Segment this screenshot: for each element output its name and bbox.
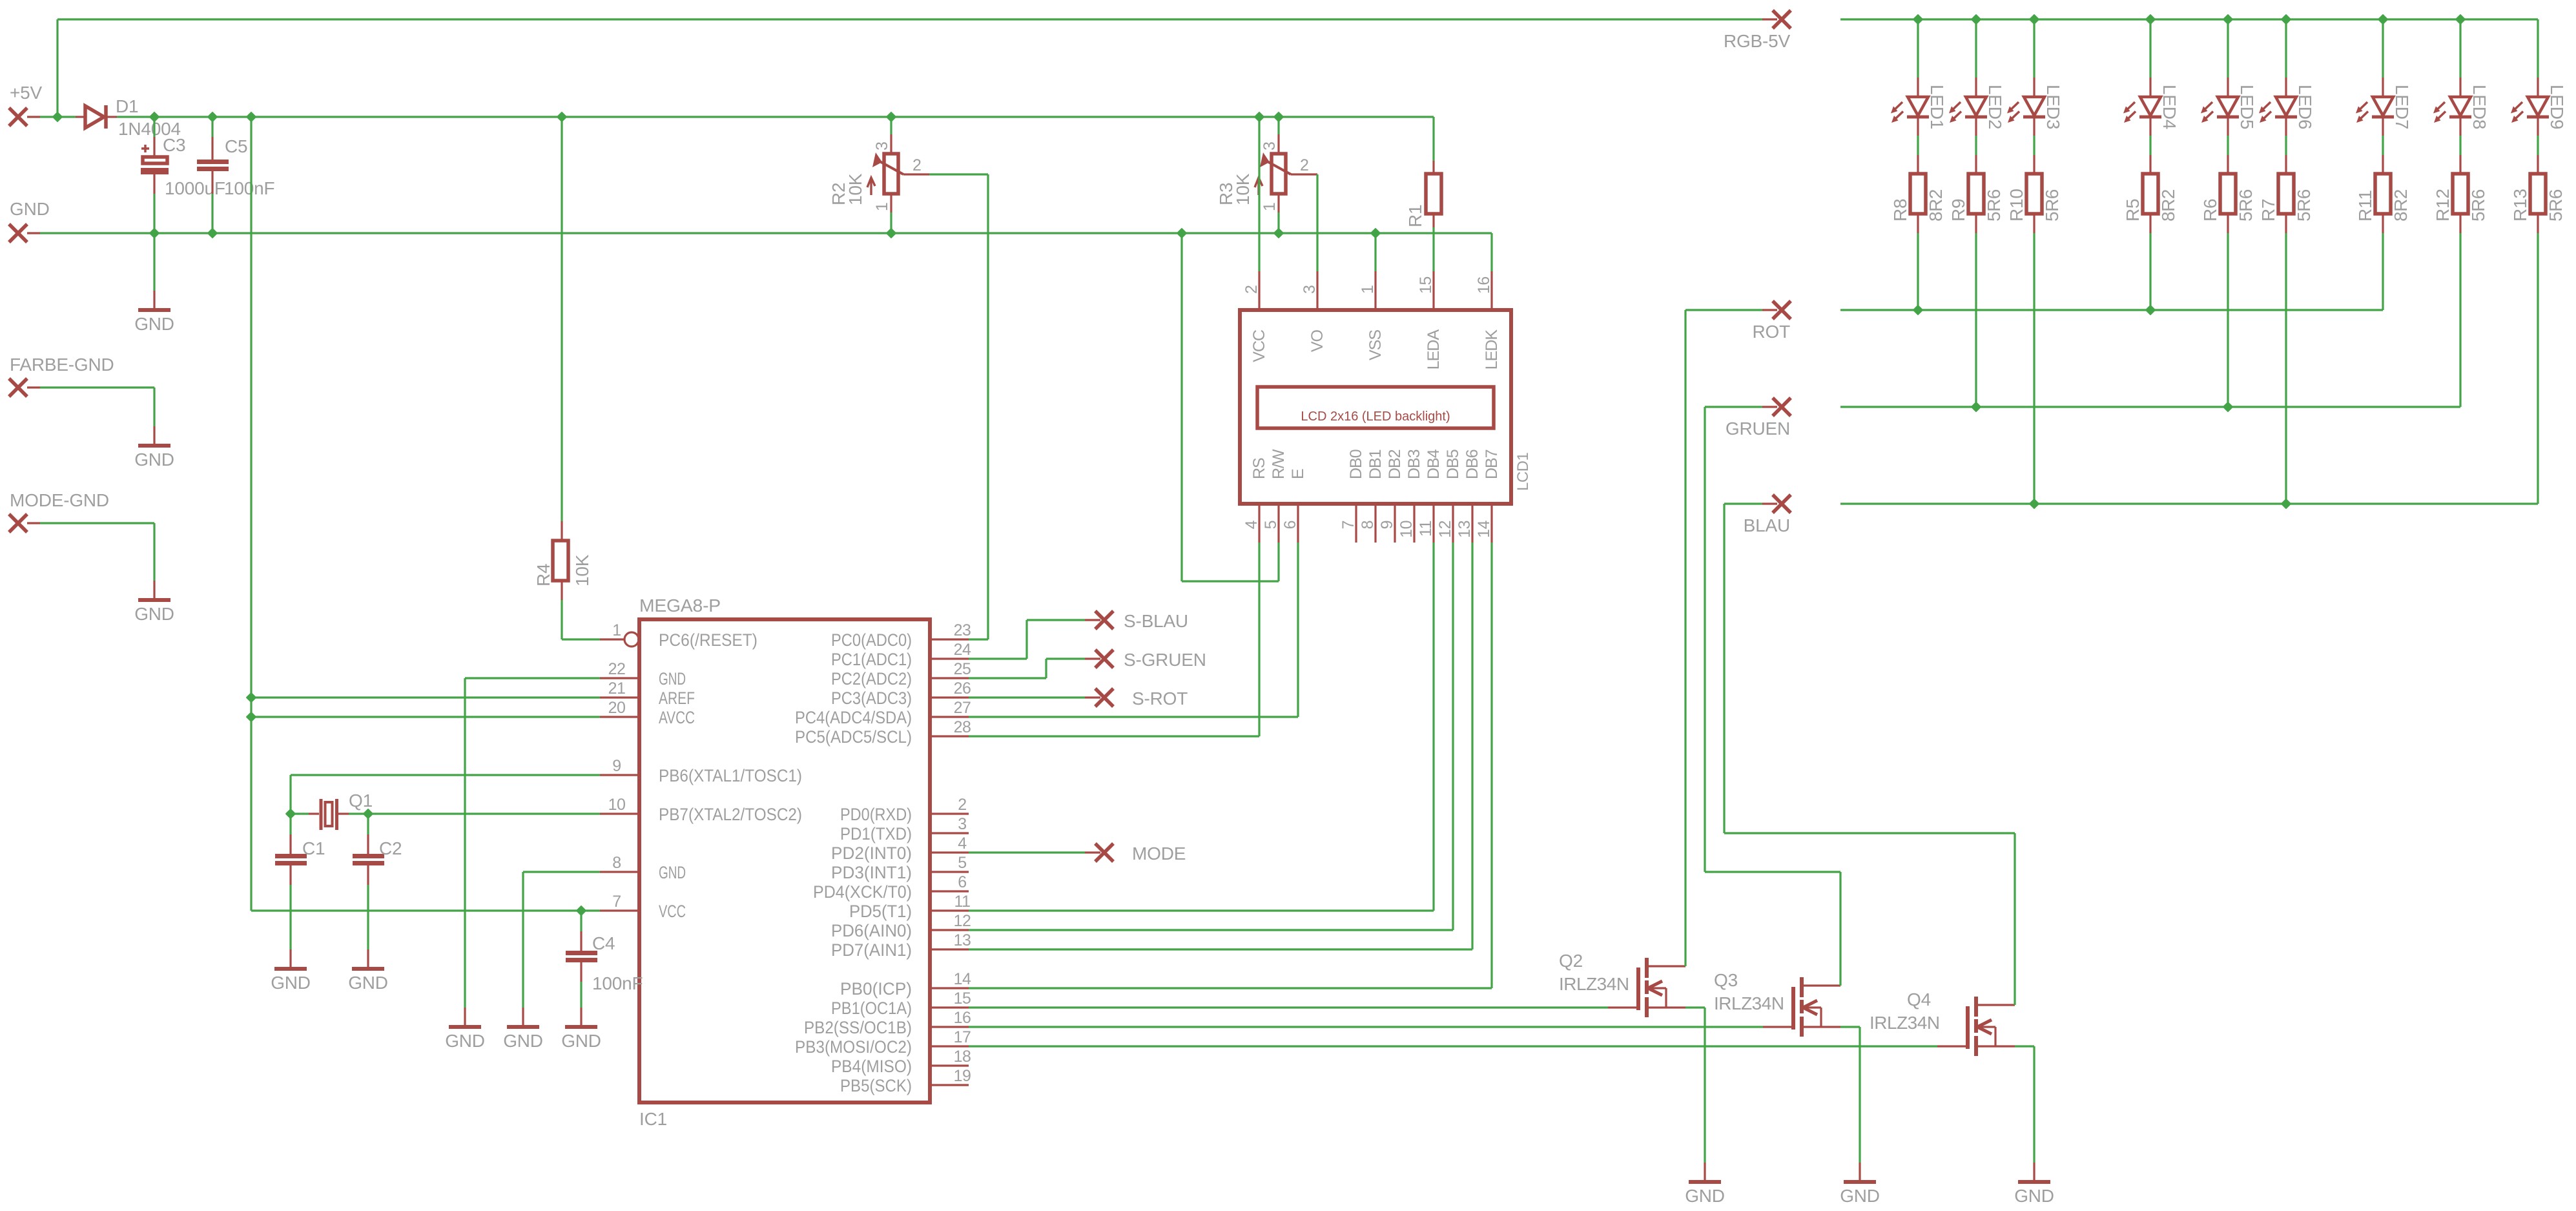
junction RGB-5V LED8 [2456,15,2464,23]
net flag RGB-5V [1724,10,1791,51]
wire PB1 to Q2 gate [969,1006,1608,1008]
IC pin number 26 [954,679,971,698]
IC pin name PD4(XCK/T0) [813,882,912,902]
svg-text:DB6: DB6 [1463,450,1481,479]
svg-text:LED2: LED2 [1985,85,2005,129]
LCD pin 5 R/W stub [1277,504,1279,543]
LCD pin 13 DB6 stub [1471,504,1473,543]
svg-text:AVCC: AVCC [659,708,695,727]
svg-text:PB1(OC1A): PB1(OC1A) [831,999,912,1018]
svg-text:C3: C3 [163,135,185,155]
wire Q3 source to ground [1840,1027,1860,1163]
svg-text:R7: R7 [2258,199,2278,222]
wire crystal left stub [291,813,319,814]
LCD pin 15 LEDA stub [1432,271,1434,310]
svg-text:9: 9 [1378,521,1396,529]
IC pin name PB0(ICP) [840,979,912,999]
label R3 [1216,183,1236,205]
svg-text:PB2(SS/OC1B): PB2(SS/OC1B) [804,1018,912,1037]
IC pin name PC3(ADC3) [831,688,912,708]
label R10 [2006,189,2026,222]
svg-text:GND: GND [10,199,50,219]
LCD pin number 4 [1242,520,1261,529]
svg-text:DB5: DB5 [1444,450,1462,479]
svg-text:GND: GND [503,1031,543,1051]
IC pin 14 PB0(ICP) stub [930,987,969,989]
IC pin name PC6(/RESET) [659,630,757,650]
svg-text:VCC: VCC [659,902,686,921]
wire S-GRUEN stub [1085,657,1100,659]
svg-text:PD2(INT0): PD2(INT0) [831,844,912,863]
wire IC pin22 GND [465,678,600,1008]
svg-text:BLAU: BLAU [1744,515,1790,535]
svg-text:5R6: 5R6 [2236,189,2256,222]
svg-text:7: 7 [612,893,621,911]
svg-text:R/W: R/W [1270,449,1288,479]
LCD pin name VO [1308,329,1326,352]
label 100nF (C5) [224,178,274,198]
crystal Q1 [321,799,337,830]
svg-text:LED9: LED9 [2547,85,2567,129]
IC pin name PD0(RXD) [840,805,912,824]
wire R3 upper [1277,117,1279,154]
wire R10 lower [2033,214,2035,504]
wire Q2 source to ground [1685,1008,1705,1163]
transistor Q4 IRLZ34N [1937,997,2015,1056]
wire MODE from PD2 [969,851,1085,853]
wire C5 upper [211,117,213,160]
wire LED7 cathode [2382,117,2384,174]
IC pin name PB5(SCK) [840,1076,912,1095]
ground GND (Q3) [1840,1163,1880,1206]
wire LED6 anode [2285,19,2287,97]
svg-text:LCD 2x16 (LED backlight): LCD 2x16 (LED backlight) [1301,409,1450,424]
IC pin 17 PB3(MOSI/OC2) stub [930,1045,969,1047]
resistor R11 [2375,174,2391,214]
IC pin number 24 [954,641,971,659]
LCD pin name R/W [1270,449,1288,479]
wire R11 lower [2382,214,2384,310]
svg-text:11: 11 [954,893,971,911]
junction C4 tap [577,906,585,915]
LCD pin name RS [1250,458,1268,479]
label 1N4004 [118,119,181,139]
label LED2 [1985,85,2005,129]
LED LED7 [2356,97,2394,123]
junction LCD VSS tap [1371,229,1379,237]
IC pin number 7 [612,893,621,911]
svg-text:IC1: IC1 [639,1109,667,1129]
IC pin 13 PD7(AIN1) stub [930,948,969,950]
wire LED4 cathode [2149,117,2151,174]
junction C3 tap [150,112,158,121]
svg-text:15: 15 [1417,276,1435,294]
wire +5V input [40,116,76,118]
svg-text:9: 9 [612,757,621,775]
svg-text:8R2: 8R2 [2158,189,2178,222]
wire R12 lower [2459,214,2461,407]
IC pin number 2 [958,796,966,814]
ground GND (FARBE) [134,426,174,470]
junction RGB-5V LED2 [1972,15,1980,23]
net flag ROT [1752,301,1791,342]
wire MODE-GND stub [27,522,40,524]
svg-text:S-GRUEN: S-GRUEN [1124,650,1206,670]
wire FARBE-GND [40,388,154,426]
LCD pin number 11 [1417,521,1435,537]
wire C2 lower [367,865,369,949]
svg-text:PB4(MISO): PB4(MISO) [831,1057,912,1076]
label 1000uF [165,178,225,198]
svg-text:10K: 10K [1233,173,1253,205]
wire S-BLAU stub [1085,619,1100,621]
junction R2 bottom on GND rail [887,229,895,237]
label LCD1 [1514,452,1532,491]
IC pin name PD3(INT1) [831,863,912,882]
LCD pin 8 DB1 stub [1374,504,1376,543]
wire RGB-5V flag stub [1762,18,1777,20]
svg-text:ROT: ROT [1752,322,1790,342]
svg-text:PC3(ADC3): PC3(ADC3) [831,688,912,708]
svg-text:R9: R9 [1948,199,1968,222]
IC pin name PB6(XTAL1/TOSC1) [659,766,802,785]
junction C5 tap [208,112,216,121]
label C3 [163,135,185,155]
label R4 [533,564,553,586]
LCD pin name DB7 [1483,450,1501,479]
svg-text:PD0(RXD): PD0(RXD) [840,805,912,824]
IC pin 7 VCC stub [600,909,639,911]
IC pin number 10 [608,796,626,814]
wire R2 upper [890,117,892,154]
IC pin name PB3(MOSI/OC2) [795,1037,912,1057]
pin number 1 (R3) [1261,203,1279,211]
junction AVCC riser tap [247,112,255,121]
IC pin 18 PB4(MISO) stub [930,1064,969,1066]
net flag GRUEN [1726,398,1791,439]
svg-text:12: 12 [1436,521,1454,538]
svg-text:8R2: 8R2 [2391,189,2411,222]
svg-text:15: 15 [954,989,971,1008]
svg-text:19: 19 [954,1067,971,1085]
svg-text:LED5: LED5 [2237,85,2257,129]
LCD pin 7 DB0 stub [1355,504,1357,543]
junction BLAU LED3 [2030,499,2038,508]
IC pin 19 PB5(SCK) stub [930,1084,969,1086]
svg-text:GND: GND [445,1031,485,1051]
LCD inner box [1257,387,1494,428]
junction GRUEN LED5 [2223,402,2232,411]
LCD pin number 9 [1378,521,1396,529]
LCD pin name LEDK [1483,329,1501,370]
svg-text:LED1: LED1 [1927,85,1947,129]
LCD pin 9 DB2 stub [1394,504,1396,543]
svg-text:5: 5 [958,854,966,872]
svg-text:LCD1: LCD1 [1514,452,1532,491]
label Q1 [349,791,373,811]
wire LCD DB7 to PB0 [969,543,1492,988]
svg-text:27: 27 [954,699,971,717]
svg-text:GND: GND [659,669,686,688]
svg-text:10K: 10K [845,173,865,205]
junction C5 to GND rail [208,229,216,237]
wire S-ROT stub [1085,696,1100,698]
ground GND (C3) [134,291,174,334]
transistor Q2 IRLZ34N [1608,958,1685,1017]
capacitor C4 [566,951,597,962]
wire LED2 anode [1975,19,1977,97]
svg-text:14: 14 [954,970,971,988]
svg-text:GND: GND [1685,1186,1725,1206]
svg-text:PC1(ADC1): PC1(ADC1) [831,650,912,669]
junction BLAU LED6 [2282,499,2290,508]
wire LCD VSS [1374,233,1376,271]
LED LED2 [1949,97,1987,123]
label LED4 [2159,85,2179,129]
svg-text:IRLZ34N: IRLZ34N [1870,1013,1940,1033]
svg-text:3: 3 [1261,142,1279,150]
svg-text:LED4: LED4 [2159,85,2179,129]
label R6 [2200,199,2220,222]
IC pin number 27 [954,699,971,717]
svg-text:R1: R1 [1405,205,1425,227]
LCD LCD1 box [1240,310,1511,504]
wire C4 upper [580,911,582,951]
LCD pin 16 LEDK stub [1490,271,1492,310]
svg-text:R13: R13 [2510,189,2530,222]
svg-text:1: 1 [1359,285,1377,294]
svg-text:3: 3 [1301,285,1319,294]
wire C1 upper [289,814,291,854]
label R2 [829,183,849,205]
LCD pin name DB2 [1386,450,1404,479]
LCD pin number 6 [1281,521,1299,529]
svg-text:LEDK: LEDK [1483,329,1501,370]
label Q4 [1907,989,1931,1009]
IC pin name PD5(T1) [849,902,912,921]
svg-text:LED7: LED7 [2392,85,2412,129]
IC pin 2 PD0(RXD) stub [930,813,969,814]
svg-text:6: 6 [1281,521,1299,529]
svg-text:GND: GND [561,1031,601,1051]
label LED1 [1927,85,1947,129]
wire GRUEN net [1705,407,1840,986]
svg-text:GND: GND [659,863,686,882]
trimmer R3 [1255,152,1291,195]
IC pin 5 PD3(INT1) stub [930,871,969,873]
IC IC1 MEGA8-P box [639,619,930,1102]
junction R3 tap [1274,112,1283,121]
label 10K (R2) [845,173,865,205]
ground GND (pin8) [503,1008,543,1051]
IC pin 15 PB1(OC1A) stub [930,1006,969,1008]
label 5R6 (R6) [2236,189,2256,222]
wire PB3 to Q4 gate [969,1045,1937,1047]
junction crystal left [286,809,294,818]
wire C1 lower [289,865,291,949]
svg-text:2: 2 [1242,285,1261,294]
svg-text:1: 1 [1261,203,1279,211]
IC pin 6 PD4(XCK/T0) stub [930,890,969,892]
wire crystal right stub [338,813,368,814]
svg-text:100nF: 100nF [592,973,643,993]
IC pin number 6 [958,873,966,891]
label 8R2 (R8) [1926,189,1946,222]
LED LED5 [2201,97,2239,123]
label C5 [225,136,247,156]
wire R13 lower [2537,214,2539,504]
svg-text:PD1(TXD): PD1(TXD) [840,824,912,844]
net flag S-BLAU [1095,611,1188,631]
svg-text:FARBE-GND: FARBE-GND [10,355,114,375]
pin number 1 (R2) [873,203,891,211]
svg-text:D1: D1 [116,96,138,116]
svg-text:GND: GND [134,450,174,470]
LCD pin number 12 [1436,521,1454,538]
IC pin 22 GND stub [600,677,639,679]
label R5 [2123,199,2143,222]
wire FARBE-GND stub [27,386,40,388]
net flag MODE [1095,844,1186,864]
LCD pin name LEDA [1425,329,1443,370]
IC pin number 19 [954,1067,971,1085]
label C4 [592,933,615,953]
wire GND rail [40,232,1492,234]
IC pin 21 AREF stub [600,696,639,698]
LCD pin number 16 [1475,276,1493,294]
junction LCD RW ground tap [1177,229,1186,237]
wire MODE-GND [40,523,154,581]
wire R4 lower to reset [562,581,600,639]
trimmer R2 [867,152,903,195]
svg-text:26: 26 [954,679,971,698]
svg-text:13: 13 [1456,521,1474,538]
label MEGA8-P [639,595,721,616]
LCD pin 1 VSS stub [1374,271,1376,310]
LCD pin number 5 [1262,521,1280,529]
svg-text:PD5(T1): PD5(T1) [849,902,912,921]
svg-text:10K: 10K [572,554,592,586]
IC pin name PC4(ADC4/SDA) [795,708,912,727]
diode D1 [76,105,117,129]
svg-text:PB5(SCK): PB5(SCK) [840,1076,912,1095]
svg-text:6: 6 [958,873,966,891]
svg-text:23: 23 [954,621,971,639]
wire LED9 cathode [2537,117,2539,174]
svg-text:S-ROT: S-ROT [1132,688,1188,709]
junction crystal right [364,809,372,818]
svg-text:R8: R8 [1890,199,1910,222]
wire LCD RW to GND [1182,233,1279,581]
wire R5 lower [2149,214,2151,310]
wire +5V rail [117,116,1434,118]
junction GRUEN LED2 [1972,402,1980,411]
svg-text:R12: R12 [2433,189,2453,222]
svg-text:MODE: MODE [1132,844,1186,864]
capacitor C3 [141,145,169,174]
IC pin name AREF [659,688,695,708]
IC pin name PD2(INT0) [831,844,912,863]
LCD pin number 1 [1359,285,1377,294]
svg-text:Q3: Q3 [1714,970,1738,990]
svg-text:10: 10 [608,796,626,814]
svg-text:RGB-5V: RGB-5V [1724,31,1791,51]
wire AVCC riser [251,117,600,911]
svg-text:4: 4 [1242,520,1261,529]
svg-text:S-BLAU: S-BLAU [1124,611,1188,631]
svg-text:100nF: 100nF [224,178,274,198]
wire LED6 cathode [2285,117,2287,174]
IC pin name GND [659,669,686,688]
svg-text:GND: GND [134,314,174,334]
LCD pin 14 DB7 stub [1490,504,1492,543]
junction RGB-5V LED1 [1913,15,1922,23]
IC pin name PB1(OC1A) [831,999,912,1018]
junction +5V at RGB riser [53,112,61,121]
net flag MODE-GND [9,490,109,532]
LCD pin name VSS [1366,330,1385,360]
wire R4 upper [561,117,562,541]
IC pin number 23 [954,621,971,639]
IC pin number 22 [608,660,626,678]
wire R7 lower [2285,214,2287,504]
junction R4 tap [557,112,566,121]
wire MODE stub [1085,851,1100,853]
svg-text:16: 16 [1475,276,1493,294]
ground GND (C4) [561,1008,601,1051]
pin number 3 (R2) [873,142,891,150]
svg-text:1: 1 [873,203,891,211]
svg-text:1: 1 [612,621,621,639]
wire RGB-5V riser and top rail [57,19,1762,117]
wire RGB-5V LED rail [1840,18,2538,20]
pin number 2 (R2) [912,156,921,174]
wire IC pin8 GND [523,872,600,1008]
LCD pin number 15 [1417,276,1435,294]
svg-text:PB0(ICP): PB0(ICP) [840,979,912,999]
junction RGB-5V LED3 [2030,15,2038,23]
wire LCD DB4 to PD5 [969,543,1434,911]
ground GND (Q4) [2014,1163,2054,1206]
LED LED1 [1891,97,1929,123]
junction RGB-5V LED5 [2223,15,2232,23]
IC pin 10 PB7(XTAL2/TOSC2) stub [600,813,639,814]
ground GND (C1) [271,949,311,993]
LCD pin name DB1 [1366,450,1385,479]
wire XTAL1 pin9 [291,775,600,814]
wire R8 lower [1917,214,1919,310]
svg-text:R6: R6 [2200,199,2220,222]
resistor R10 [2026,174,2042,214]
svg-text:AREF: AREF [659,688,695,708]
IC pin 25 PC2(ADC2) stub [930,677,969,679]
LCD pin name DB6 [1463,450,1481,479]
svg-text:13: 13 [954,931,971,949]
label 5R6 (R13) [2546,189,2566,222]
LCD pin number 10 [1397,521,1416,538]
label LED3 [2043,85,2063,129]
LCD pin 4 RS stub [1258,504,1260,543]
IC pin 24 PC1(ADC1) stub [930,657,969,659]
wire BLAU rail [1840,502,2538,504]
wire LED2 cathode [1975,117,1977,174]
wire R1 lower [1432,214,1434,271]
ground flag GND [9,199,50,242]
svg-text:8R2: 8R2 [1926,189,1946,222]
svg-text:14: 14 [1475,520,1493,537]
wire S-GRUEN from PC2 [969,659,1085,678]
svg-text:5R6: 5R6 [2468,189,2488,222]
